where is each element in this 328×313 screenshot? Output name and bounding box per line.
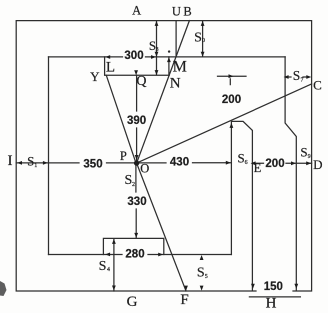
svg-text:1: 1	[34, 163, 37, 169]
svg-text:G: G	[127, 294, 138, 310]
svg-text:P: P	[120, 149, 127, 163]
svg-text:N: N	[170, 75, 181, 91]
svg-text:M: M	[173, 59, 187, 76]
svg-text:2: 2	[132, 182, 135, 188]
svg-text:D: D	[313, 157, 322, 172]
svg-text:4: 4	[107, 267, 110, 273]
svg-text:430: 430	[170, 157, 189, 169]
svg-text:350: 350	[83, 159, 102, 171]
svg-text:150: 150	[264, 281, 283, 293]
svg-text:5: 5	[205, 274, 208, 280]
svg-text:330: 330	[127, 196, 146, 208]
svg-text:Q: Q	[136, 74, 146, 89]
svg-text:390: 390	[127, 115, 146, 127]
svg-text:S: S	[300, 145, 307, 160]
svg-text:S: S	[293, 68, 301, 83]
svg-text:C: C	[313, 77, 322, 92]
svg-text:6: 6	[245, 160, 248, 166]
svg-text:A: A	[132, 4, 141, 18]
svg-text:0: 0	[202, 38, 205, 44]
svg-text:280: 280	[125, 248, 144, 260]
svg-text:7: 7	[301, 78, 304, 84]
svg-text:3: 3	[156, 47, 159, 53]
svg-text:U: U	[172, 4, 181, 18]
svg-text:S: S	[197, 266, 205, 281]
svg-text:E: E	[254, 161, 262, 175]
svg-text:H: H	[266, 295, 277, 311]
svg-text:L: L	[106, 60, 115, 76]
svg-text:9: 9	[308, 154, 311, 160]
svg-text:O: O	[140, 161, 149, 175]
svg-text:S: S	[99, 259, 107, 274]
svg-text:200: 200	[265, 158, 284, 170]
svg-text:B: B	[183, 4, 191, 18]
svg-text:I: I	[8, 153, 13, 169]
svg-text:S: S	[194, 31, 202, 46]
svg-text:300: 300	[124, 50, 143, 62]
svg-text:200: 200	[222, 94, 241, 106]
svg-text:Y: Y	[90, 69, 100, 84]
svg-text:F: F	[180, 292, 188, 308]
